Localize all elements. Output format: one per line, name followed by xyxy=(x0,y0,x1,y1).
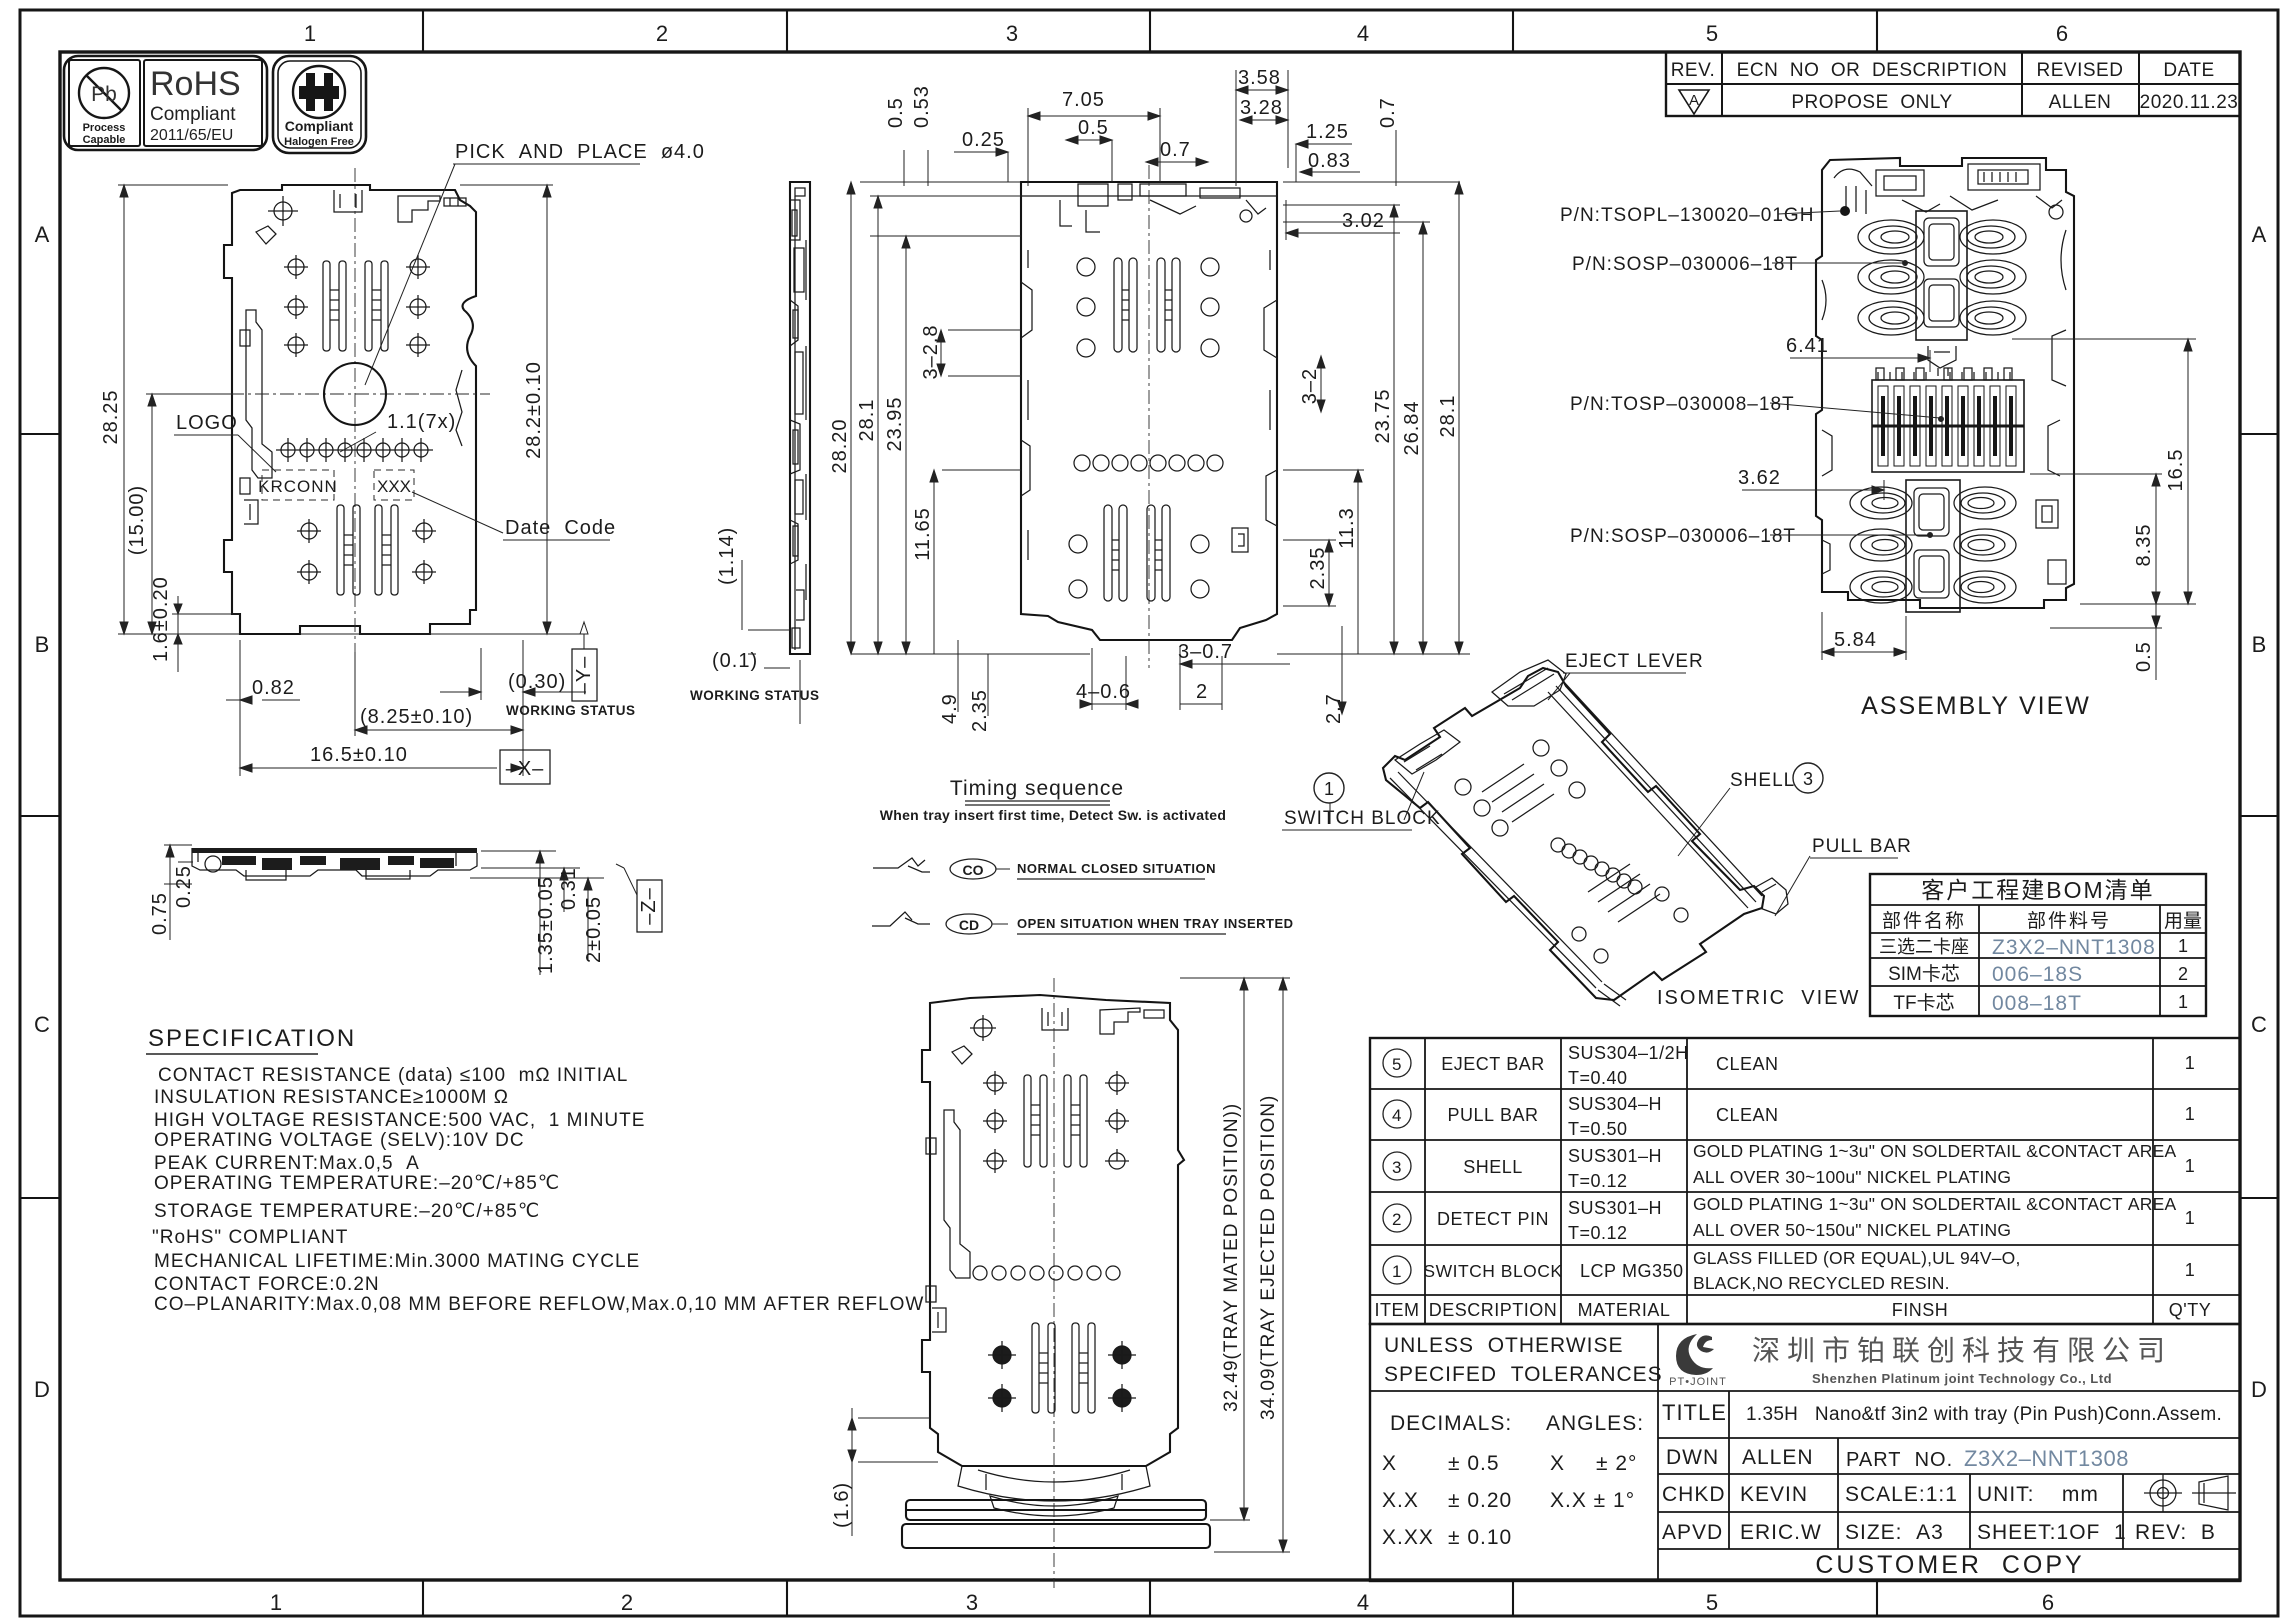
svg-text:5: 5 xyxy=(1706,21,1718,46)
svg-text:1: 1 xyxy=(2185,1104,2196,1124)
svg-text:28.2±0.10: 28.2±0.10 xyxy=(523,361,545,459)
svg-text:MATERIAL: MATERIAL xyxy=(1578,1300,1671,1320)
svg-text:CONTACT RESISTANCE (data) ≤100: CONTACT RESISTANCE (data) ≤100 mΩ INITIA… xyxy=(158,1065,628,1086)
svg-text:1: 1 xyxy=(2185,1053,2196,1073)
svg-text:2.35: 2.35 xyxy=(1307,547,1329,590)
svg-text:8.35: 8.35 xyxy=(2133,524,2155,567)
svg-text:1: 1 xyxy=(2185,1156,2196,1176)
cross circles iso top xyxy=(1455,740,1585,836)
svg-text:1: 1 xyxy=(1392,1262,1402,1281)
svg-text:11.65: 11.65 xyxy=(912,507,934,561)
svg-text:1.35±0.05: 1.35±0.05 xyxy=(535,876,557,974)
svg-text:4.9: 4.9 xyxy=(939,693,961,724)
top view (view 1) outline xyxy=(100,141,705,784)
svg-text:23.75: 23.75 xyxy=(1372,388,1394,443)
dim 28.25 xyxy=(118,185,228,634)
open symbol xyxy=(872,912,930,926)
svg-text:SWITCH BLOCK: SWITCH BLOCK xyxy=(1423,1261,1562,1281)
assembly view xyxy=(1560,158,2196,720)
svg-text:28.1: 28.1 xyxy=(856,399,878,442)
horizontal centerline xyxy=(230,393,490,395)
row 4 pull bar xyxy=(1383,1100,1411,1128)
lower slots xyxy=(1104,505,1170,601)
svg-text:客户工程建BOM清单: 客户工程建BOM清单 xyxy=(1921,877,2154,903)
svg-text:CO–PLANARITY:Max.0,08 MM BEFOR: CO–PLANARITY:Max.0,08 MM BEFORE REFLOW,M… xyxy=(154,1294,924,1315)
P/N labels xyxy=(1560,205,1814,547)
svg-text:(1.6): (1.6) xyxy=(831,1482,853,1528)
svg-text:Z3X2–NNT1308: Z3X2–NNT1308 xyxy=(1964,1446,2129,1471)
svg-text:0.5: 0.5 xyxy=(1078,117,1109,139)
svg-text:P/N:SOSP–030006–18T: P/N:SOSP–030006–18T xyxy=(1570,526,1796,547)
middle row circles xyxy=(1551,838,1642,894)
pick point dot xyxy=(1840,206,1850,216)
Pb logo xyxy=(79,68,129,118)
svg-text:1.25: 1.25 xyxy=(1306,121,1349,143)
left edge small details xyxy=(1822,280,1832,574)
svg-text:P/N:TOSP–030008–18T: P/N:TOSP–030008–18T xyxy=(1570,394,1795,415)
upper petals right xyxy=(1960,220,2026,335)
svg-text:SUS304–H: SUS304–H xyxy=(1568,1094,1662,1114)
svg-text:ISOMETRIC VIEW: ISOMETRIC VIEW xyxy=(1657,987,1860,1009)
right side wall parallel lines xyxy=(1548,682,1762,908)
svg-text:RoHS: RoHS xyxy=(150,65,241,103)
svg-text:C: C xyxy=(2251,1012,2267,1037)
svg-text:DECIMALS:: DECIMALS: xyxy=(1390,1412,1512,1435)
svg-text:SIM卡芯: SIM卡芯 xyxy=(1888,963,1960,985)
svg-text:A: A xyxy=(1689,92,1699,109)
svg-text:6.41: 6.41 xyxy=(1786,335,1829,357)
lower petals left xyxy=(1850,487,1912,603)
leader: switch block xyxy=(1314,773,1344,803)
left inner profile xyxy=(246,310,272,478)
svg-text:部件名称: 部件名称 xyxy=(1882,910,1966,932)
svg-text:X.X ± 1°: X.X ± 1° xyxy=(1550,1489,1635,1512)
svg-text:3: 3 xyxy=(1006,21,1018,46)
tray notch bottom xyxy=(1598,984,1626,1006)
svg-text:BLACK,NO RECYCLED RESIN.: BLACK,NO RECYCLED RESIN. xyxy=(1693,1273,1950,1293)
svg-text:Z3X2–NNT1308: Z3X2–NNT1308 xyxy=(1992,936,2156,959)
tray bumper xyxy=(958,1466,1150,1501)
dim 32.49 / 34.09 xyxy=(1180,978,1290,1552)
right edge details xyxy=(2036,230,2066,584)
svg-text:X: X xyxy=(1382,1452,1397,1475)
svg-text:2.7: 2.7 xyxy=(1323,693,1345,724)
company logo xyxy=(1669,1334,1727,1388)
svg-text:1: 1 xyxy=(270,1590,282,1615)
(1.6) dim xyxy=(848,1408,938,1536)
svg-text:NORMAL CLOSED SITUATION: NORMAL CLOSED SITUATION xyxy=(1017,861,1216,876)
isometric view xyxy=(1282,651,1912,1009)
-Z- datum box xyxy=(637,880,662,932)
svg-text:WORKING STATUS: WORKING STATUS xyxy=(690,688,820,703)
svg-text:ASSEMBLY VIEW: ASSEMBLY VIEW xyxy=(1861,692,2091,720)
svg-text:Timing sequence: Timing sequence xyxy=(950,777,1124,800)
svg-text:1: 1 xyxy=(304,21,316,46)
svg-text:± 2°: ± 2° xyxy=(1596,1452,1637,1475)
svg-text:(1.14): (1.14) xyxy=(716,527,738,585)
svg-text:SHELL: SHELL xyxy=(1463,1157,1523,1177)
dim 8.35 xyxy=(2030,474,2162,604)
svg-text:1.1(7x): 1.1(7x) xyxy=(387,411,456,433)
svg-text:PROPOSE ONLY: PROPOSE ONLY xyxy=(1791,92,1952,113)
upper SIM contact block xyxy=(1916,211,1967,340)
vertical centerline xyxy=(1148,165,1150,668)
svg-text:X: X xyxy=(1550,1452,1565,1475)
svg-text:PULL BAR: PULL BAR xyxy=(1447,1105,1538,1125)
svg-text:0.25: 0.25 xyxy=(962,129,1005,151)
left bottom wall lines xyxy=(1390,772,1602,988)
dim (8.25±0.10) xyxy=(355,640,523,776)
svg-text:TF卡芯: TF卡芯 xyxy=(1893,992,1954,1014)
pick and place circle xyxy=(324,363,386,425)
iso outline parallelogram xyxy=(1383,668,1764,1000)
TF contact block xyxy=(1872,368,2024,472)
svg-text:P/N:SOSP–030006–18T: P/N:SOSP–030006–18T xyxy=(1572,254,1798,275)
svg-text:3.58: 3.58 xyxy=(1238,67,1281,89)
svg-text:ITEM: ITEM xyxy=(1375,1300,1420,1320)
lower cross circles xyxy=(988,1341,1136,1412)
svg-text:X.X: X.X xyxy=(1382,1489,1419,1512)
view 2 right dims xyxy=(1277,182,1470,654)
dim 1.6±0.20 xyxy=(172,596,240,672)
svg-text:5: 5 xyxy=(1392,1055,1402,1074)
svg-text:T=0.12: T=0.12 xyxy=(1568,1171,1628,1191)
svg-text:3: 3 xyxy=(1392,1158,1402,1177)
vertical centerline xyxy=(354,168,356,652)
small left tabs xyxy=(240,330,258,524)
svg-text:SCALE:1:1: SCALE:1:1 xyxy=(1845,1483,1958,1506)
svg-text:D: D xyxy=(34,1377,50,1402)
middle pin row xyxy=(1074,455,1223,471)
svg-text:16.5: 16.5 xyxy=(2165,449,2187,492)
svg-text:PEAK CURRENT:Max.0,5 A: PEAK CURRENT:Max.0,5 A xyxy=(154,1153,420,1174)
title block xyxy=(1370,1324,2240,1581)
svg-text:0.75: 0.75 xyxy=(149,892,171,935)
svg-text:3.62: 3.62 xyxy=(1738,467,1781,489)
parts list table xyxy=(1370,1038,2240,1324)
svg-text:2: 2 xyxy=(2178,964,2188,984)
top cluster xyxy=(952,1008,1164,1064)
svg-text:UNLESS OTHERWISE: UNLESS OTHERWISE xyxy=(1384,1334,1624,1357)
dim 16.5 xyxy=(2012,339,2196,604)
upper petals left xyxy=(1858,220,1924,335)
svg-text:–X–: –X– xyxy=(506,758,545,780)
eject lever at top corner xyxy=(1492,660,1566,706)
svg-text:SIZE: A3: SIZE: A3 xyxy=(1845,1521,1944,1544)
svg-text:(8.25±0.10): (8.25±0.10) xyxy=(360,706,473,728)
svg-text:Process: Process xyxy=(83,122,126,134)
svg-text:EJECT BAR: EJECT BAR xyxy=(1441,1054,1545,1074)
svg-text:SUS301–H: SUS301–H xyxy=(1568,1146,1662,1166)
svg-text:± 0.10: ± 0.10 xyxy=(1448,1526,1512,1549)
svg-text:11.3: 11.3 xyxy=(1336,507,1358,548)
svg-text:1: 1 xyxy=(2178,936,2188,956)
lower circles xyxy=(1069,535,1209,598)
svg-text:2: 2 xyxy=(1196,681,1208,703)
svg-text:SUS304–1/2H: SUS304–1/2H xyxy=(1568,1043,1689,1063)
lower SIM contact block xyxy=(1906,480,1960,612)
right inner wavy edge xyxy=(456,370,462,446)
dim 6.41 xyxy=(1790,350,1930,372)
svg-text:32.49(TRAY MATED POSITION)): 32.49(TRAY MATED POSITION)) xyxy=(1221,1103,1242,1412)
svg-text:3–2: 3–2 xyxy=(1299,368,1321,404)
dim (0.30) working status xyxy=(440,648,586,700)
middle row 8 circles xyxy=(973,1266,1120,1280)
svg-text:A: A xyxy=(2252,222,2267,247)
svg-text:2: 2 xyxy=(1392,1210,1402,1229)
svg-text:3–2.8: 3–2.8 xyxy=(920,324,942,379)
svg-text:DESCRIPTION: DESCRIPTION xyxy=(1429,1300,1558,1320)
svg-text:用量: 用量 xyxy=(2164,911,2202,932)
svg-text:Capable: Capable xyxy=(83,134,126,146)
svg-text:34.09(TRAY EJECTED POSITION): 34.09(TRAY EJECTED POSITION) xyxy=(1258,1095,1279,1420)
dim 28.2±0.10 xyxy=(460,185,553,634)
timing sequence note xyxy=(872,777,1294,934)
svg-text:7.05: 7.05 xyxy=(1062,89,1105,111)
svg-text:部件料号: 部件料号 xyxy=(2027,910,2111,932)
svg-text:OPEN SITUATION WHEN TRAY INSER: OPEN SITUATION WHEN TRAY INSERTED xyxy=(1017,916,1294,931)
svg-text:GLASS FILLED (OR EQUAL),UL 94V: GLASS FILLED (OR EQUAL),UL 94V–O, xyxy=(1693,1248,2021,1268)
svg-text:XXX: XXX xyxy=(377,477,411,496)
svg-text:0.25: 0.25 xyxy=(173,865,195,908)
top edge small parts xyxy=(274,202,292,220)
svg-text:Date Code: Date Code xyxy=(505,517,616,539)
revision table xyxy=(1666,52,2240,116)
svg-text:Compliant: Compliant xyxy=(285,118,354,134)
svg-text:SHEET:1OF 1: SHEET:1OF 1 xyxy=(1977,1521,2127,1544)
dim 5.84 xyxy=(1822,612,1906,660)
svg-text:5.84: 5.84 xyxy=(1834,629,1877,651)
svg-text:3.02: 3.02 xyxy=(1342,210,1385,232)
svg-text:SWITCH BLOCK: SWITCH BLOCK xyxy=(1284,808,1441,829)
svg-text:ALLEN: ALLEN xyxy=(1742,1446,1814,1469)
svg-text:STORAGE TEMPERATURE:–20℃/+85℃: STORAGE TEMPERATURE:–20℃/+85℃ xyxy=(154,1201,540,1222)
svg-text:"RoHS" COMPLIANT: "RoHS" COMPLIANT xyxy=(152,1227,348,1248)
svg-text:6: 6 xyxy=(2056,21,2068,46)
svg-text:ERIC.W: ERIC.W xyxy=(1740,1521,1822,1544)
svg-text:三选二卡座: 三选二卡座 xyxy=(1879,937,1969,957)
small left tabs xyxy=(926,1138,946,1332)
bottom view (view 3) xyxy=(831,978,1290,1588)
svg-text:T=0.40: T=0.40 xyxy=(1568,1068,1628,1088)
lower petals right xyxy=(1954,487,2016,603)
svg-text:4: 4 xyxy=(1392,1106,1402,1125)
left dims 0.75 / 0.25 xyxy=(164,845,193,940)
svg-text:X.XX: X.XX xyxy=(1382,1526,1434,1549)
svg-text:T=0.12: T=0.12 xyxy=(1568,1223,1628,1243)
svg-text:DWN: DWN xyxy=(1666,1446,1719,1469)
svg-text:3–0.7: 3–0.7 xyxy=(1178,641,1233,663)
svg-text:LCP MG350: LCP MG350 xyxy=(1580,1261,1684,1281)
svg-text:0.31: 0.31 xyxy=(558,867,580,910)
svg-text:D: D xyxy=(2251,1377,2267,1402)
svg-text:4: 4 xyxy=(1357,21,1369,46)
svg-text:ALLEN: ALLEN xyxy=(2049,92,2112,113)
tray base plates xyxy=(902,1500,1210,1548)
svg-text:PULL BAR: PULL BAR xyxy=(1812,836,1912,857)
svg-text:3: 3 xyxy=(1803,769,1813,789)
svg-text:TITLE: TITLE xyxy=(1662,1400,1727,1425)
svg-text:2: 2 xyxy=(621,1590,633,1615)
svg-text:0.53: 0.53 xyxy=(911,85,933,128)
svg-text:1.35H Nano&tf 3in2 with tray: 1.35H Nano&tf 3in2 with tray (Pin Push)C… xyxy=(1746,1404,2222,1425)
svg-text:CD: CD xyxy=(959,917,979,933)
svg-text:5: 5 xyxy=(1706,1590,1718,1615)
svg-text:ALL OVER 50~150u" NICKEL PLATI: ALL OVER 50~150u" NICKEL PLATING xyxy=(1693,1220,2011,1240)
svg-text:CO: CO xyxy=(963,862,984,878)
svg-text:B: B xyxy=(2252,632,2267,657)
halogen free logo xyxy=(273,56,366,153)
svg-text:0.7: 0.7 xyxy=(1160,139,1191,161)
svg-text:APVD: APVD xyxy=(1662,1521,1723,1544)
svg-text:A: A xyxy=(35,222,50,247)
svg-text:EJECT LEVER: EJECT LEVER xyxy=(1565,651,1704,672)
title row xyxy=(1662,1400,2222,1544)
view 2 left profile strip xyxy=(690,182,820,724)
svg-text:OPERATING TEMPERATURE:–20℃/+85: OPERATING TEMPERATURE:–20℃/+85℃ xyxy=(154,1173,560,1194)
svg-text:Compliant: Compliant xyxy=(150,104,236,125)
hatch slots group 1 xyxy=(1482,764,1554,822)
upper slots xyxy=(1024,1075,1087,1167)
(1.14) dim xyxy=(742,560,790,654)
pull bar tab xyxy=(1754,878,1788,914)
svg-text:SPECIFED TOLERANCES: SPECIFED TOLERANCES xyxy=(1384,1363,1663,1386)
svg-text:3.28: 3.28 xyxy=(1240,97,1283,119)
svg-text:CLEAN: CLEAN xyxy=(1716,1054,1779,1074)
svg-text:DETECT PIN: DETECT PIN xyxy=(1437,1209,1549,1229)
svg-text:–Z–: –Z– xyxy=(638,887,660,924)
svg-text:3: 3 xyxy=(966,1590,978,1615)
svg-text:CLEAN: CLEAN xyxy=(1716,1105,1779,1125)
svg-text:FINSH: FINSH xyxy=(1892,1300,1949,1320)
centerline xyxy=(1053,978,1055,1588)
svg-text:Halogen Free: Halogen Free xyxy=(284,136,354,148)
svg-text:28.1: 28.1 xyxy=(1437,395,1459,438)
svg-text:Q'TY: Q'TY xyxy=(2169,1300,2211,1320)
svg-text:0.7: 0.7 xyxy=(1377,97,1399,128)
svg-text:006–18S: 006–18S xyxy=(1992,963,2083,986)
left inner profile xyxy=(944,1110,970,1278)
svg-text:2±0.05: 2±0.05 xyxy=(583,896,605,963)
svg-text:T=0.50: T=0.50 xyxy=(1568,1119,1628,1139)
svg-text:OPERATING VOLTAGE (SELV):10V D: OPERATING VOLTAGE (SELV):10V DC xyxy=(154,1130,525,1151)
svg-text:2: 2 xyxy=(656,21,668,46)
svg-text:0.5: 0.5 xyxy=(2133,641,2155,672)
svg-text:KRCONN: KRCONN xyxy=(258,477,338,496)
dim 3.62 xyxy=(1742,480,1884,500)
svg-text:28.25: 28.25 xyxy=(100,389,122,444)
svg-text:2.35: 2.35 xyxy=(969,689,991,732)
svg-text:0.5: 0.5 xyxy=(885,97,907,128)
svg-text:PICK AND PLACE ø4.0: PICK AND PLACE ø4.0 xyxy=(455,141,705,163)
top cluster xyxy=(1834,164,2063,219)
svg-text:深圳市铂联创科技有限公司: 深圳市铂联创科技有限公司 xyxy=(1752,1335,2172,1366)
svg-text:1: 1 xyxy=(2185,1260,2196,1280)
svg-text:ANGLES:: ANGLES: xyxy=(1546,1412,1644,1435)
svg-text:REVISED: REVISED xyxy=(2037,60,2124,81)
svg-text:UNIT: mm: UNIT: mm xyxy=(1977,1483,2099,1506)
right dims xyxy=(470,851,604,975)
svg-text:CUSTOMER COPY: CUSTOMER COPY xyxy=(1815,1551,2084,1579)
svg-text:DATE: DATE xyxy=(2163,60,2214,81)
svg-text:Shenzhen Platinum joint Techno: Shenzhen Platinum joint Technology Co., … xyxy=(1812,1371,2112,1386)
svg-text:(15.00): (15.00) xyxy=(126,485,148,555)
svg-text:PT•JOINT: PT•JOINT xyxy=(1669,1376,1727,1388)
svg-text:23.95: 23.95 xyxy=(884,396,906,451)
specification text block xyxy=(146,1025,924,1315)
-X- datum box xyxy=(500,750,550,784)
svg-text:P/N:TSOPL–130020–01GH: P/N:TSOPL–130020–01GH xyxy=(1560,205,1814,226)
svg-text:4: 4 xyxy=(1357,1590,1369,1615)
svg-text:INSULATION RESISTANCE≥1000M Ω: INSULATION RESISTANCE≥1000M Ω xyxy=(154,1087,509,1108)
svg-text:2020.11.23: 2020.11.23 xyxy=(2140,92,2239,113)
svg-text:LOGO: LOGO xyxy=(176,412,238,434)
tolerances xyxy=(1382,1334,1663,1549)
svg-text:16.5±0.10: 16.5±0.10 xyxy=(310,744,408,766)
svg-text:6: 6 xyxy=(2042,1590,2054,1615)
svg-text:26.84: 26.84 xyxy=(1401,400,1423,455)
svg-text:CHKD: CHKD xyxy=(1662,1483,1726,1506)
upper contact holes (cross circles) xyxy=(284,255,430,357)
row 1 switch block xyxy=(1383,1256,1411,1284)
svg-text:SUS301–H: SUS301–H xyxy=(1568,1198,1662,1218)
KRCONN marking box xyxy=(258,470,414,500)
svg-text:REV.: REV. xyxy=(1671,60,1716,81)
svg-text:KEVIN: KEVIN xyxy=(1740,1483,1808,1506)
svg-text:0.83: 0.83 xyxy=(1308,150,1351,172)
svg-text:HIGH VOLTAGE RESISTANCE:500 VA: HIGH VOLTAGE RESISTANCE:500 VAC, 1 MINUT… xyxy=(154,1110,645,1131)
upper slots xyxy=(1114,258,1180,352)
dim 0.82 xyxy=(226,640,300,712)
svg-text:B: B xyxy=(35,632,50,657)
svg-text:ALL OVER 30~100u" NICKEL PLATI: ALL OVER 30~100u" NICKEL PLATING xyxy=(1693,1167,2011,1187)
dim (15.00) xyxy=(146,394,230,634)
RoHS / Pb-free logo block xyxy=(64,56,366,153)
svg-text:1: 1 xyxy=(2185,1208,2196,1228)
svg-text:4–0.6: 4–0.6 xyxy=(1076,681,1131,703)
switch block small xyxy=(1928,346,1956,376)
outline xyxy=(1816,158,2074,608)
row 2 detect pin xyxy=(1383,1204,1411,1232)
svg-text:C: C xyxy=(34,1012,50,1037)
svg-text:PART NO.: PART NO. xyxy=(1846,1449,1953,1471)
upper contact slots xyxy=(323,261,388,351)
svg-text:1.6±0.20: 1.6±0.20 xyxy=(150,576,172,662)
svg-text:REV: B: REV: B xyxy=(2135,1521,2216,1544)
svg-text:MECHANICAL LIFETIME:Min.3000 M: MECHANICAL LIFETIME:Min.3000 MATING CYCL… xyxy=(154,1251,640,1272)
svg-text:1: 1 xyxy=(1324,779,1334,799)
svg-text:SPECIFICATION: SPECIFICATION xyxy=(148,1025,356,1052)
left inner edge detail xyxy=(1021,250,1032,560)
BOM table xyxy=(1870,874,2206,1016)
svg-text:2011/65/EU: 2011/65/EU xyxy=(150,127,233,144)
rev triangle marker xyxy=(1679,90,1709,114)
lower contact slots xyxy=(337,505,398,595)
view 2 bottom dims xyxy=(939,626,1346,732)
svg-text:008–18T: 008–18T xyxy=(1992,992,2082,1015)
svg-text:28.20: 28.20 xyxy=(829,418,851,473)
svg-text:ECN NO OR DESCRIPTION: ECN NO OR DESCRIPTION xyxy=(1737,60,2008,81)
svg-text:SHELL: SHELL xyxy=(1730,770,1795,791)
pin row (8 holes) xyxy=(276,438,433,462)
right inner edge detail xyxy=(1232,250,1277,552)
svg-text:Pb: Pb xyxy=(91,83,117,106)
(0.1) dim xyxy=(764,660,800,724)
svg-text:GOLD PLATING 1~3u" ON SOLDERTA: GOLD PLATING 1~3u" ON SOLDERTAIL &CONTAC… xyxy=(1693,1141,2176,1161)
side view (front profile) xyxy=(149,845,662,975)
projection symbols xyxy=(2144,1474,2236,1512)
svg-text:(0.1): (0.1) xyxy=(712,650,758,672)
